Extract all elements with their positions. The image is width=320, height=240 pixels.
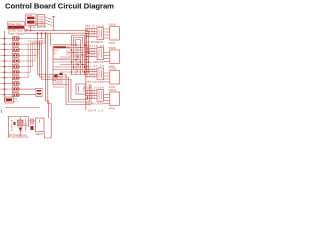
- wire R10/R11 to FL1: [21, 89, 37, 95]
- svg-text:RELAY: RELAY: [36, 133, 44, 136]
- ferrite bead FB1: [54, 75, 57, 78]
- snubber circuit outline: [8, 117, 29, 138]
- connector J2: [104, 47, 120, 68]
- header block H3: [85, 64, 105, 84]
- svg-text:LM: LM: [14, 99, 17, 101]
- stub left edge: [1, 110, 3, 113]
- voltage regulator U3: [5, 97, 18, 103]
- svg-text:CN101: CN101: [109, 23, 117, 26]
- svg-text:TB2 SENSE: TB2 SENSE: [86, 60, 104, 64]
- terminal TB0: [25, 29, 29, 31]
- resistor R4 with rung wire: [1, 53, 21, 57]
- svg-text:CN102: CN102: [109, 47, 117, 50]
- wire bus bundle vertical: [38, 33, 92, 138]
- svg-text:REL AY-5V: REL AY-5V: [85, 64, 105, 68]
- transistor Q1: [14, 117, 24, 127]
- connector J1: [104, 23, 120, 44]
- svg-text:Power Input: Power Input: [8, 22, 22, 26]
- svg-text:Intake: Intake: [27, 14, 34, 17]
- filter block FL1: [36, 89, 42, 97]
- connector J4: [104, 89, 120, 110]
- resistor R2 with rung wire: [1, 42, 21, 46]
- ground bus (left vertical): [4, 31, 6, 102]
- svg-text:RST1: RST1: [54, 50, 60, 52]
- svg-text:SW-R 1-8: SW-R 1-8: [88, 109, 104, 112]
- svg-text:1N4148 D3: 1N4148 D3: [85, 44, 105, 48]
- resistor R9 with rung wire: [1, 82, 21, 86]
- PS2 outline: [7, 22, 24, 29]
- svg-text:Power Supply: Power Supply: [8, 31, 25, 35]
- diode D1: [19, 128, 23, 138]
- svg-text:ULN 2003A: ULN 2003A: [85, 86, 105, 90]
- power bus VBUS: [24, 31, 89, 73]
- relay K1: [36, 118, 45, 136]
- resistor R6 with rung wire: [1, 65, 21, 69]
- svg-text:Control Board Circuit Diagram: Control Board Circuit Diagram: [5, 2, 114, 11]
- microcontroller U1: [53, 45, 76, 85]
- svg-text:TB3 MOTOR: TB3 MOTOR: [86, 80, 104, 84]
- resistor R11 with rung wire: [1, 93, 21, 97]
- svg-text:RC Snubber Circ: RC Snubber Circ: [10, 134, 28, 137]
- resistor R12: [31, 119, 34, 130]
- wire T1 outputs: [45, 17, 52, 26]
- wire PS1 to bus: [30, 26, 32, 31]
- svg-text:CN103: CN103: [109, 68, 117, 71]
- resistor R10 with rung wire: [1, 87, 21, 91]
- junction dots center: [71, 44, 89, 72]
- resistor R8 with rung wire: [1, 76, 21, 80]
- svg-text:SW ROCKER: SW ROCKER: [86, 102, 104, 106]
- junction dots on VBUS: [37, 32, 47, 34]
- DC-DC converter label block PS2: [8, 22, 25, 36]
- right bus vertical: [85, 28, 87, 110]
- svg-text:TB1 0-10uF: TB1 0-10uF: [85, 24, 105, 28]
- wire snubber to relay: [29, 120, 36, 122]
- power module PS1: [26, 14, 37, 26]
- svg-text:4-PIN: 4-PIN: [109, 42, 115, 45]
- transformer T1: [37, 15, 45, 27]
- wire bridge loops to header: [72, 36, 85, 45]
- resistor R3 with rung wire: [1, 48, 21, 52]
- svg-text:0.1uF 25V x8: 0.1uF 25V x8: [29, 27, 47, 29]
- svg-text:SW MOMENT: SW MOMENT: [86, 40, 104, 44]
- svg-text:AC LINE IN: AC LINE IN: [10, 120, 13, 131]
- svg-text:4-PIN: 4-PIN: [109, 107, 115, 110]
- resistor R5 with rung wire: [1, 59, 21, 63]
- net VCC stub: [52, 17, 55, 31]
- header block H1: [85, 24, 105, 44]
- wire bus drops: [38, 33, 46, 38]
- ferrite bead FB2: [60, 73, 63, 75]
- connector J3: [104, 68, 120, 89]
- wire lower horizontal: [5, 107, 40, 109]
- header block H4: [85, 86, 105, 106]
- resistor R7 with rung wire: [1, 70, 21, 74]
- wire fan ladder-to-bus: [21, 39, 47, 78]
- header block H2: [85, 44, 105, 64]
- svg-text:SW5 SW6 SW7: SW5 SW6 SW7: [29, 24, 47, 26]
- capacitor C1: [24, 118, 27, 131]
- wire center grid: [53, 44, 90, 75]
- wire nest corners A: [53, 75, 68, 88]
- svg-text:CN104: CN104: [109, 89, 117, 92]
- optocoupler U2: [76, 84, 86, 94]
- resistor R1 with rung wire: [1, 37, 21, 41]
